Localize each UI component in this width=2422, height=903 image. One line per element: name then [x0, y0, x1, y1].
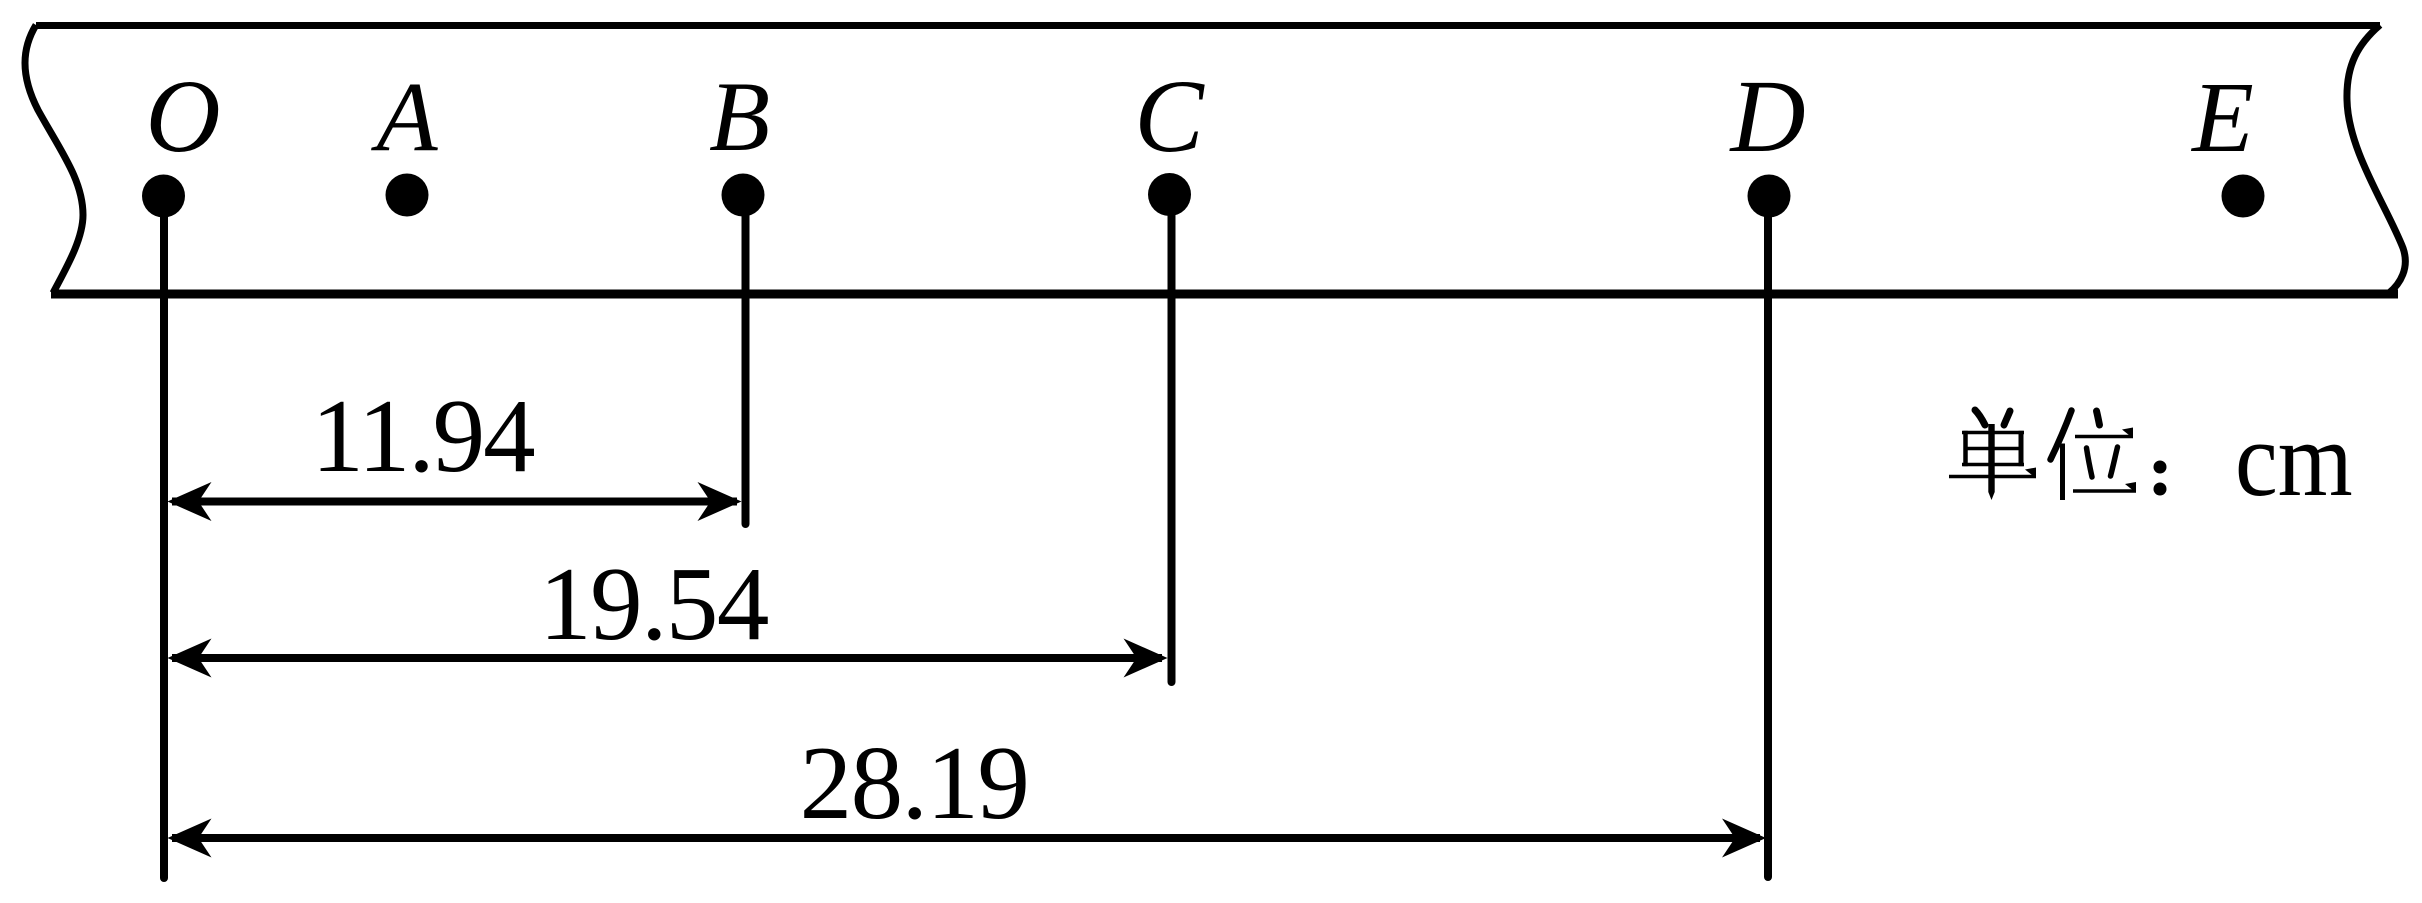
vertical line from D: [1764, 200, 1772, 877]
dot C: [1148, 173, 1191, 216]
tape right torn edge: [2347, 25, 2405, 293]
dot E: [2222, 175, 2265, 218]
tape bottom edge: [51, 290, 2398, 299]
svg-text:O: O: [145, 59, 220, 174]
dot D: [1748, 175, 1791, 218]
unit label: hanzi DAN (单) drawn strokes: [1949, 410, 2036, 477]
dimension arrow O-C (19.54): [168, 639, 1168, 678]
svg-text:28.19: 28.19: [800, 724, 1029, 841]
vertical line from C: [1168, 200, 1176, 682]
unit label: cm: [2235, 400, 2353, 519]
svg-text:D: D: [1728, 59, 1805, 174]
unit label: hanzi WEI (位) drawn strokes: [2051, 411, 2137, 501]
svg-text:C: C: [1134, 59, 1205, 174]
dimension arrow O-D (28.19): [168, 819, 1767, 858]
svg-text:cm: cm: [2235, 400, 2353, 519]
svg-text:19.54: 19.54: [539, 545, 768, 662]
unit label: fullwidth colon: [2154, 461, 2167, 474]
dot O: [142, 175, 185, 218]
svg-text:B: B: [709, 61, 770, 172]
dot B: [722, 174, 765, 217]
dimension arrow O-B (11.94): [168, 482, 742, 521]
vertical line from B: [742, 200, 750, 524]
dot A: [386, 174, 429, 217]
svg-text:E: E: [2190, 61, 2254, 173]
vertical line from O: [160, 200, 168, 878]
svg-text:A: A: [370, 61, 438, 172]
svg-text:11.94: 11.94: [311, 377, 534, 494]
tape left torn edge: [25, 25, 83, 293]
tape top edge: [36, 22, 2380, 29]
